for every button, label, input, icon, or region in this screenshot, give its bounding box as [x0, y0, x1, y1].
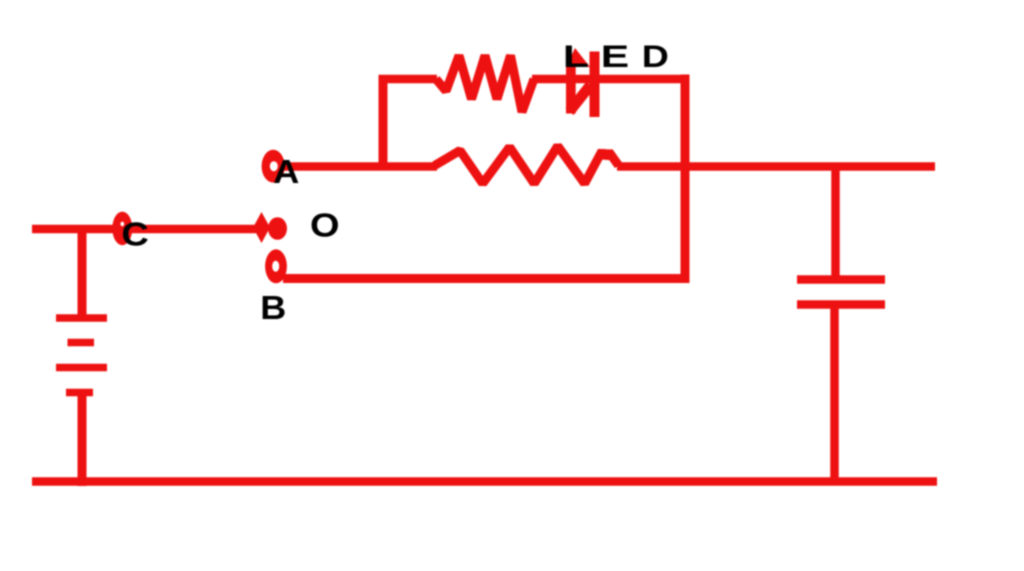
svg-text:B: B [260, 290, 286, 326]
wire node B branch horizontal [283, 274, 690, 283]
resistor R1 top branch zigzag [436, 56, 534, 113]
resistor R2 middle branch zigzag [435, 146, 619, 184]
label C [121, 216, 148, 253]
battery BT1 plate long bottom [56, 364, 107, 372]
label D of LED [642, 40, 669, 75]
svg-text:L: L [563, 39, 589, 74]
battery BT1 plate long top [56, 314, 107, 322]
label A [273, 154, 299, 190]
wire battery negative to ground [78, 393, 87, 487]
switch arrow head at common node O [253, 212, 270, 243]
svg-text:A: A [273, 154, 299, 190]
node O filled contact [268, 217, 287, 240]
svg-text:C: C [121, 216, 148, 253]
wire top branch horizontal left [379, 75, 438, 84]
wire top branch horizontal right [532, 75, 690, 84]
wire bottom ground rail [32, 477, 937, 486]
wire battery top vertical [78, 229, 87, 318]
label O [310, 207, 340, 244]
svg-text:E: E [601, 38, 629, 73]
label E of LED [601, 38, 629, 73]
label B [260, 290, 286, 326]
battery BT1 plate short bottom [66, 389, 93, 397]
svg-text:O: O [310, 207, 340, 244]
LED D1 cathode bar [590, 52, 600, 118]
svg-text:D: D [642, 40, 669, 75]
capacitor C1 bottom plate [797, 300, 885, 309]
label L of LED [563, 39, 589, 74]
capacitor C1 top lead [831, 167, 840, 276]
capacitor C1 bottom lead [830, 309, 839, 482]
LED D1 body vertical stroke [566, 64, 576, 114]
LED D1 anode triangle top [566, 48, 590, 67]
wire battery positive to switch common C-O [32, 225, 256, 234]
node A terminal ring [262, 150, 285, 183]
node C terminal ring [112, 212, 132, 246]
battery BT1 plate short [68, 339, 95, 347]
wire top branch left vertical [379, 75, 388, 167]
node B terminal ring [265, 249, 287, 283]
wire node A branch horizontal left [284, 162, 437, 171]
wire node A branch horizontal right [617, 162, 935, 171]
wire right vertical junction [681, 75, 690, 284]
LED D1 body diagonal stroke [566, 82, 595, 116]
capacitor C1 top plate [797, 275, 885, 284]
